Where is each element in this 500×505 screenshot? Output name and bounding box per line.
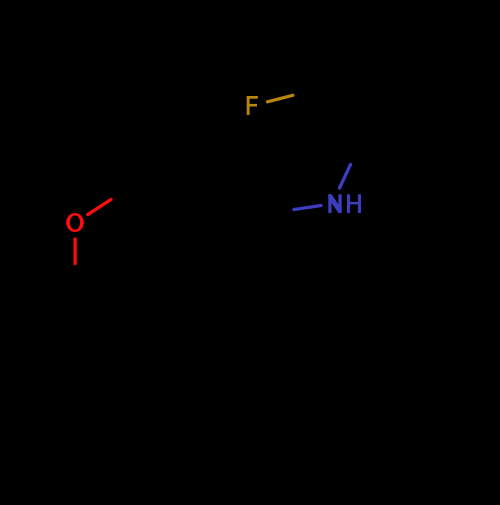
atom O (ether oxygen label) — [66, 213, 84, 232]
bond N-CH2 left (nitrogen half-bond to chain carbon) — [294, 206, 321, 210]
atom N of NH (amine label, letter N) — [328, 194, 341, 213]
bond N-C up (nitrogen half-bond to quaternary carbon) — [340, 165, 351, 189]
atom H of NH (amine label, letter H) — [347, 194, 361, 213]
bond F-C (fluorine half-bond) — [268, 95, 293, 102]
bond O-CH3 down (methoxy half-bond) — [73, 239, 76, 264]
atom F (fluorine label) — [247, 96, 258, 115]
bond O-C upright (oxygen half-bond to ring carbon) — [88, 200, 111, 215]
